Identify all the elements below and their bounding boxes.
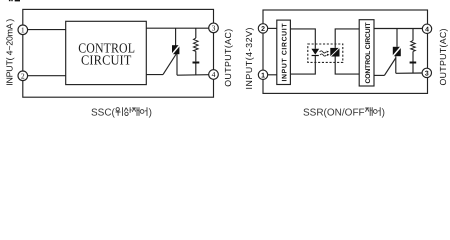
wire top rail control box to terminal4 — [374, 28, 422, 30]
wire bottom rail to terminal4 — [177, 74, 209, 77]
wire C2 to bottom rail — [412, 64, 414, 74]
terminal 1 (right diagram) — [258, 70, 267, 79]
optocoupler dashed box — [308, 44, 343, 62]
hangul 제 — [132, 107, 139, 116]
wire triac anode lead — [175, 28, 177, 45]
terminal 1 — [18, 25, 28, 35]
terminal 2 — [18, 71, 28, 81]
photo detector (phototriac) — [330, 48, 339, 57]
wire LED bottom to input box — [290, 56, 315, 74]
wire input box to LED top — [290, 29, 315, 49]
terminal 3 (right diagram) — [422, 68, 431, 77]
control circuit box U1 — [66, 21, 147, 84]
cropped text fragment top-left — [9, 0, 20, 1]
svg-text:3: 3 — [425, 71, 429, 78]
svg-text:INPUT(4-32V): INPUT(4-32V) — [244, 27, 254, 89]
wire between R1 and C1 — [195, 51, 197, 61]
LED D1 — [311, 49, 319, 56]
wire terminal1 to box — [28, 29, 66, 31]
triac Q2 (filled block with slash) — [393, 47, 401, 56]
input circuit box — [277, 20, 291, 84]
caption SSR — [303, 107, 385, 118]
svg-text:OUTPUT(AC): OUTPUT(AC) — [223, 29, 233, 87]
resistor R2 zigzag — [411, 41, 416, 52]
svg-text:2: 2 — [261, 26, 265, 33]
wire terminal2 to input box — [268, 27, 277, 29]
terminal 4 (right diagram) — [422, 24, 431, 33]
svg-text:INPUT( 4~20mA ): INPUT( 4~20mA ) — [4, 19, 14, 86]
wire bottom rail to terminal3 — [396, 72, 422, 74]
wire gate diagonal — [384, 58, 395, 75]
svg-text:INPUT CIRCUIT: INPUT CIRCUIT — [282, 23, 289, 82]
capacitor C2 (thick plate bar) — [410, 62, 417, 64]
svg-text:1: 1 — [261, 72, 265, 79]
wire gate diagonal — [163, 54, 176, 75]
terminal 2 (right diagram) — [258, 24, 267, 33]
wire detector top to control box — [335, 29, 359, 48]
triac Q1 (filled block with slash) — [172, 45, 179, 54]
wire top rail box to terminal3 — [146, 27, 209, 29]
svg-text:4: 4 — [425, 26, 429, 33]
package outline loop — [23, 9, 214, 97]
wire snubber lead top — [195, 28, 197, 38]
terminal 4 — [209, 70, 219, 80]
hangul 위 — [116, 107, 123, 116]
resistor R1 zigzag — [194, 38, 199, 51]
capacitor C1 (thick plate bar) — [193, 62, 200, 64]
hangul 제 — [365, 107, 372, 116]
svg-text:SSR(ON/OFF: SSR(ON/OFF — [303, 107, 365, 118]
svg-text:): ) — [382, 107, 385, 118]
svg-text:SSC(: SSC( — [91, 107, 116, 118]
wire terminal1 to input box — [268, 74, 277, 76]
wire triac cathode lead — [395, 56, 397, 73]
terminal 3 — [209, 23, 219, 33]
package outline loop — [263, 10, 428, 93]
svg-text:4: 4 — [212, 70, 216, 79]
control circuit box — [359, 20, 374, 86]
wire between R2 and C2 — [412, 51, 414, 61]
wire triac cathode lead — [176, 54, 178, 75]
hangul 어 — [140, 107, 147, 116]
svg-text:2: 2 — [21, 72, 25, 81]
wire detector bottom to control box — [335, 57, 359, 75]
wire gate from box — [146, 74, 163, 76]
wire terminal2 to box — [28, 75, 66, 77]
wire snubber lead top — [412, 29, 414, 41]
svg-text:3: 3 — [212, 24, 216, 33]
light squiggles — [320, 51, 326, 53]
wire C1 to bottom rail — [195, 64, 197, 76]
hangul 상 — [124, 107, 131, 115]
wire gate from control box — [374, 74, 384, 76]
wire triac anode lead — [396, 29, 398, 47]
hangul 어 — [373, 107, 380, 116]
svg-text:CONTROL CIRCUIT: CONTROL CIRCUIT — [365, 22, 372, 84]
control circuit label — [78, 40, 135, 67]
svg-text:): ) — [149, 107, 152, 118]
svg-text:CIRCUIT: CIRCUIT — [81, 53, 132, 68]
caption SSC — [91, 107, 152, 118]
svg-text:1: 1 — [21, 26, 25, 35]
svg-text:OUTPUT(AC): OUTPUT(AC) — [438, 28, 448, 85]
